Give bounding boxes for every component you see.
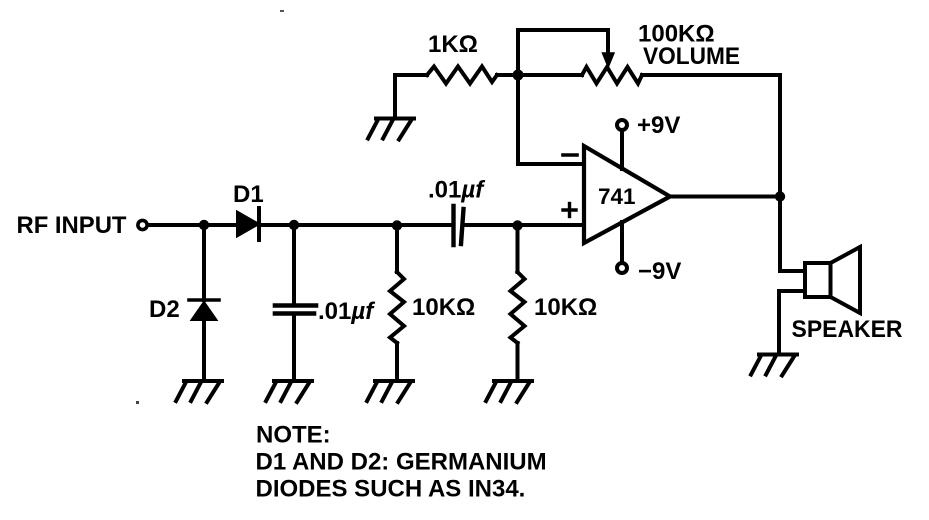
- svg-text:VOLUME: VOLUME: [643, 43, 740, 70]
- svg-text:.01µf: .01µf: [428, 177, 485, 204]
- node: output junction: [775, 191, 785, 201]
- svg-text:741: 741: [598, 184, 636, 209]
- ground (below second 10K resistor): [486, 381, 532, 402]
- wire: second 10K to ground: [516, 343, 520, 378]
- speaker: [805, 247, 860, 313]
- wire: RF input terminal to D1 anode: [149, 223, 237, 227]
- svg-text:10KΩ: 10KΩ: [534, 294, 597, 321]
- wire: minus-input riser from junction: [518, 75, 584, 164]
- op-amp minus sign: [563, 153, 577, 157]
- wire: 1K resistor to top junction: [497, 73, 518, 77]
- node: RF input terminal (open circle): [138, 220, 147, 229]
- node: feedback junction: [513, 70, 524, 81]
- diode D2: [189, 300, 219, 320]
- wire: first 10K branch down: [395, 225, 399, 272]
- wire: D2 branch down: [202, 225, 206, 300]
- wire: op-amp to -9V supply: [620, 222, 624, 263]
- svg-text:RF INPUT: RF INPUT: [17, 212, 127, 239]
- svg-text:NOTE:: NOTE:: [256, 422, 331, 449]
- ground (below 1K resistor): [368, 119, 414, 140]
- svg-text:+9V: +9V: [637, 112, 680, 139]
- node: shunt capacitor branch junction: [289, 220, 299, 230]
- node: +9V terminal (open circle): [617, 120, 627, 130]
- wire: second 10K branch down: [516, 225, 520, 272]
- wire: right rail down to speaker top terminal: [780, 197, 805, 272]
- svg-text:10KΩ: 10KΩ: [412, 294, 475, 321]
- wire: junction to potentiometer: [518, 73, 582, 77]
- wire: series capacitor right plate to op-amp + input: [463, 223, 584, 227]
- op-amp plus sign: [563, 204, 576, 217]
- capacitor .01uf (series coupling): [454, 206, 464, 245]
- wire: shunt capacitor branch down: [292, 225, 296, 303]
- wire: first 10K to ground: [395, 343, 399, 378]
- svg-text:D1 AND D2: GERMANIUM: D1 AND D2: GERMANIUM: [256, 449, 547, 476]
- ground (below first 10K resistor): [367, 381, 413, 402]
- svg-text:D2: D2: [149, 296, 180, 323]
- svg-text:DIODES SUCH AS IN34.: DIODES SUCH AS IN34.: [256, 476, 526, 503]
- ground (below speaker): [751, 355, 797, 376]
- svg-text:−9V: −9V: [638, 258, 681, 285]
- wire: wiper feedback loop: [518, 30, 608, 75]
- potentiometer 100KΩ VOLUME (element): [582, 67, 642, 84]
- node: second 10K resistor junction: [512, 220, 522, 230]
- wire: D2 to ground: [202, 318, 206, 378]
- diode D1: [237, 208, 259, 240]
- svg-text:.01µf: .01µf: [318, 298, 375, 325]
- ground (below shunt capacitor): [266, 381, 312, 402]
- potentiometer wiper arrow: [603, 53, 615, 67]
- wire: op-amp output to right rail: [670, 195, 780, 199]
- op-amp 741: [584, 146, 670, 243]
- wire: potentiometer to right rail: [642, 75, 780, 196]
- node: first 10K resistor junction: [392, 220, 402, 230]
- resistor 10KΩ (first, vertical): [390, 272, 404, 343]
- wire: shunt capacitor to ground: [292, 316, 296, 378]
- capacitor .01uf (shunt): [275, 306, 316, 314]
- wire: +9V supply to op-amp: [620, 130, 624, 169]
- svg-text:1KΩ: 1KΩ: [428, 31, 478, 58]
- svg-text:D1: D1: [233, 181, 264, 208]
- scan speck bottom left: [136, 401, 139, 404]
- svg-text:SPEAKER: SPEAKER: [792, 316, 903, 343]
- wire: D1 cathode to series capacitor left plate: [259, 223, 452, 227]
- resistor 1KΩ (horizontal): [427, 67, 497, 84]
- resistor 10KΩ (second, vertical): [511, 272, 525, 343]
- wire: ground riser to 1K resistor: [395, 75, 427, 117]
- node: D2 branch junction: [199, 220, 209, 230]
- node: -9V terminal (open circle): [617, 263, 627, 273]
- wire: speaker bottom terminal to ground: [779, 291, 805, 353]
- ground (below D2): [176, 381, 222, 402]
- scan speck top left: [280, 10, 284, 12]
